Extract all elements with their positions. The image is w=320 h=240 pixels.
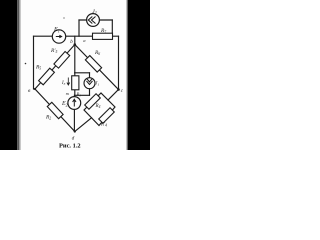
svg-text:I3: I3 — [61, 81, 66, 86]
wire: left vertical side — [33, 36, 35, 89]
node b — [74, 43, 77, 46]
wire: middle branch vertical from node b to parallel group — [74, 45, 76, 73]
resistor R4 (upper branch of diamond) — [85, 94, 101, 110]
resistor R6 (on b-c edge) — [85, 56, 101, 73]
current source J2 — [87, 14, 100, 27]
svg-text:J1: J1 — [95, 82, 99, 87]
resistor R5' (upper series resistor on b-left edge) — [54, 51, 70, 68]
scan border left band — [0, 0, 17, 150]
wire: edge node b to node c (R6 branch) — [75, 45, 119, 90]
wire: current-source loop right vertical — [111, 20, 113, 33]
wire: edge node b to left node (series R5 branch) — [35, 45, 75, 90]
wire: node c down-left to R4 diamond — [108, 90, 119, 101]
wire: right vertical side down to node c — [118, 36, 120, 89]
resistor R3 (vertical, middle branch) — [72, 76, 79, 90]
resistor R7 (top right horizontal) — [93, 33, 113, 39]
svg-text:R′4: R′4 — [100, 123, 107, 128]
wire: current-source loop left vertical — [78, 20, 80, 36]
speck — [63, 17, 64, 18]
svg-text:m: m — [66, 91, 69, 96]
scan border right band — [128, 0, 150, 150]
wire: top horizontal from top-left corner to top-right corner — [34, 35, 119, 37]
EMF source E2 — [68, 97, 81, 110]
wire: parallel group bottom horizontal — [75, 94, 90, 96]
svg-text:Рис. 1.2: Рис. 1.2 — [59, 143, 81, 150]
wire: stub from top wire down to node b — [74, 36, 76, 44]
node в (left) — [34, 88, 36, 90]
wire: current-source loop top horizontal — [79, 19, 112, 21]
node c — [117, 88, 120, 91]
wire: from group to E2 and down to node d — [73, 95, 75, 131]
svg-text:R4: R4 — [95, 104, 101, 109]
current arrow I3 — [67, 78, 70, 86]
wire: diamond loop of parallel R4 / R4' — [84, 93, 115, 126]
current source J1 — [84, 78, 95, 89]
wire: R3 branch vertical — [74, 73, 76, 96]
node d — [74, 130, 76, 132]
wire: parallel group top horizontal — [75, 72, 90, 74]
EMF source E1 — [52, 30, 65, 43]
resistor R5 (lower series resistor on b-left edge) — [39, 68, 55, 85]
wire: node d up-right to R4 diamond — [75, 118, 92, 132]
wire: J1 branch vertical — [89, 73, 91, 96]
wire: edge left node to node d (R2 branch) — [35, 89, 75, 132]
resistor R4' (lower branch of diamond) — [99, 108, 115, 124]
svg-text:E2: E2 — [61, 101, 68, 107]
resistor R2 (on left-d edge) — [47, 102, 63, 118]
